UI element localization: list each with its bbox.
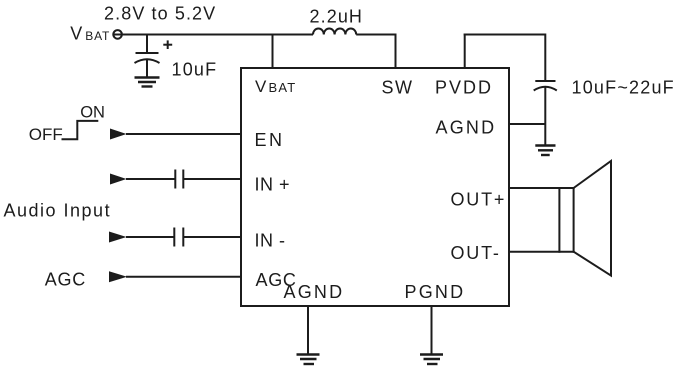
ground under C1 bbox=[135, 78, 160, 87]
IC U1 amplifier body bbox=[241, 68, 509, 306]
wire VBAT pin riser bbox=[272, 34, 274, 69]
svg-text:2.2uH: 2.2uH bbox=[310, 7, 364, 27]
svg-text:PVDD: PVDD bbox=[435, 78, 493, 98]
svg-text:AGC: AGC bbox=[45, 270, 86, 290]
pin label AGND right bbox=[436, 118, 497, 138]
svg-text:ON: ON bbox=[80, 104, 105, 122]
wire OUT+ to speaker bbox=[509, 187, 575, 189]
capacitor C1 10uF branch wire bbox=[146, 35, 148, 54]
svg-text:OFF: OFF bbox=[29, 125, 63, 144]
arrow into AGC bbox=[109, 271, 127, 282]
pin label AGC bbox=[256, 270, 297, 290]
pin label OUT+ bbox=[451, 190, 507, 210]
pin label SW bbox=[382, 78, 414, 98]
label 2.8V to 5.2V bbox=[104, 4, 216, 24]
svg-text:BAT: BAT bbox=[85, 29, 110, 43]
label AGC bbox=[45, 270, 86, 290]
label + polarity C1 bbox=[163, 40, 172, 49]
svg-text:2.8V to 5.2V: 2.8V to 5.2V bbox=[104, 4, 216, 24]
wire EN bbox=[126, 133, 241, 135]
wire AGND to C2 bbox=[509, 123, 545, 125]
switch ON/OFF control waveform bbox=[29, 104, 105, 144]
arrow into EN bbox=[110, 129, 127, 140]
wire C2 bottom lead bbox=[544, 88, 546, 146]
pin label PVDD bbox=[435, 78, 493, 98]
pin label IN+ bbox=[255, 175, 291, 195]
svg-text:V: V bbox=[70, 24, 82, 44]
svg-text:OUT-: OUT- bbox=[451, 243, 501, 263]
wire arrow to C3 bbox=[126, 178, 175, 180]
ground under C2 bbox=[535, 146, 555, 156]
arrow into IN- bbox=[109, 232, 127, 243]
wire C4 to IN- pin bbox=[183, 236, 241, 238]
svg-text:Audio Input: Audio Input bbox=[4, 201, 112, 221]
wire AGC bbox=[126, 276, 241, 278]
svg-text:V: V bbox=[255, 77, 267, 96]
wire PGND bottom lead bbox=[431, 306, 433, 354]
capacitor C4 input coupling IN- bbox=[174, 228, 183, 247]
capacitor C2 plates bbox=[534, 81, 557, 91]
svg-text:SW: SW bbox=[382, 78, 414, 98]
wire inductor to SW riser bbox=[356, 34, 395, 36]
svg-text:AGND: AGND bbox=[284, 282, 345, 302]
capacitor C1 10uF plates bbox=[135, 53, 160, 77]
label 10uF bbox=[172, 60, 218, 80]
wire SW pin riser bbox=[395, 34, 397, 69]
pin label AGND bottom bbox=[284, 282, 345, 302]
pin label PGND bottom bbox=[405, 282, 466, 302]
svg-text:AGND: AGND bbox=[436, 118, 497, 138]
wire PVDD riser bbox=[464, 34, 466, 69]
speaker SPK1 body bbox=[559, 187, 573, 253]
pin label OUT- bbox=[451, 243, 501, 263]
svg-text:EN: EN bbox=[255, 130, 285, 150]
svg-text:IN -: IN - bbox=[255, 231, 286, 251]
wire AGND bottom lead bbox=[307, 306, 309, 354]
svg-text:10uF~22uF: 10uF~22uF bbox=[572, 78, 675, 98]
node VBAT terminal circle bbox=[113, 30, 122, 39]
wire C3 to IN+ pin bbox=[183, 178, 241, 180]
pin label EN bbox=[255, 130, 285, 150]
arrow into IN+ bbox=[110, 174, 127, 185]
inductor L1 2.2uH bbox=[313, 29, 356, 35]
svg-text:BAT: BAT bbox=[269, 80, 297, 95]
pin label VBAT bbox=[255, 77, 296, 96]
label 10uF~22uF bbox=[572, 78, 675, 98]
node VBAT terminal label bbox=[70, 24, 110, 44]
wire VBAT rail to inductor bbox=[121, 34, 313, 36]
wire C2 top lead bbox=[544, 34, 546, 82]
svg-text:PGND: PGND bbox=[405, 282, 466, 302]
pin label IN- bbox=[255, 231, 286, 251]
wire arrow to C4 bbox=[126, 236, 174, 238]
svg-text:10uF: 10uF bbox=[172, 60, 218, 80]
ground AGND bbox=[297, 355, 320, 365]
svg-text:IN +: IN + bbox=[255, 175, 291, 195]
label Audio Input bbox=[4, 201, 112, 221]
wire PVDD top to C2 bbox=[464, 34, 546, 36]
wire OUT- to speaker bbox=[509, 251, 575, 253]
label 2.2uH bbox=[310, 7, 364, 27]
ground PGND bbox=[420, 355, 443, 365]
speaker SPK1 horn bbox=[574, 161, 611, 276]
svg-text:OUT+: OUT+ bbox=[451, 190, 507, 210]
capacitor C3 input coupling IN+ bbox=[175, 170, 183, 189]
